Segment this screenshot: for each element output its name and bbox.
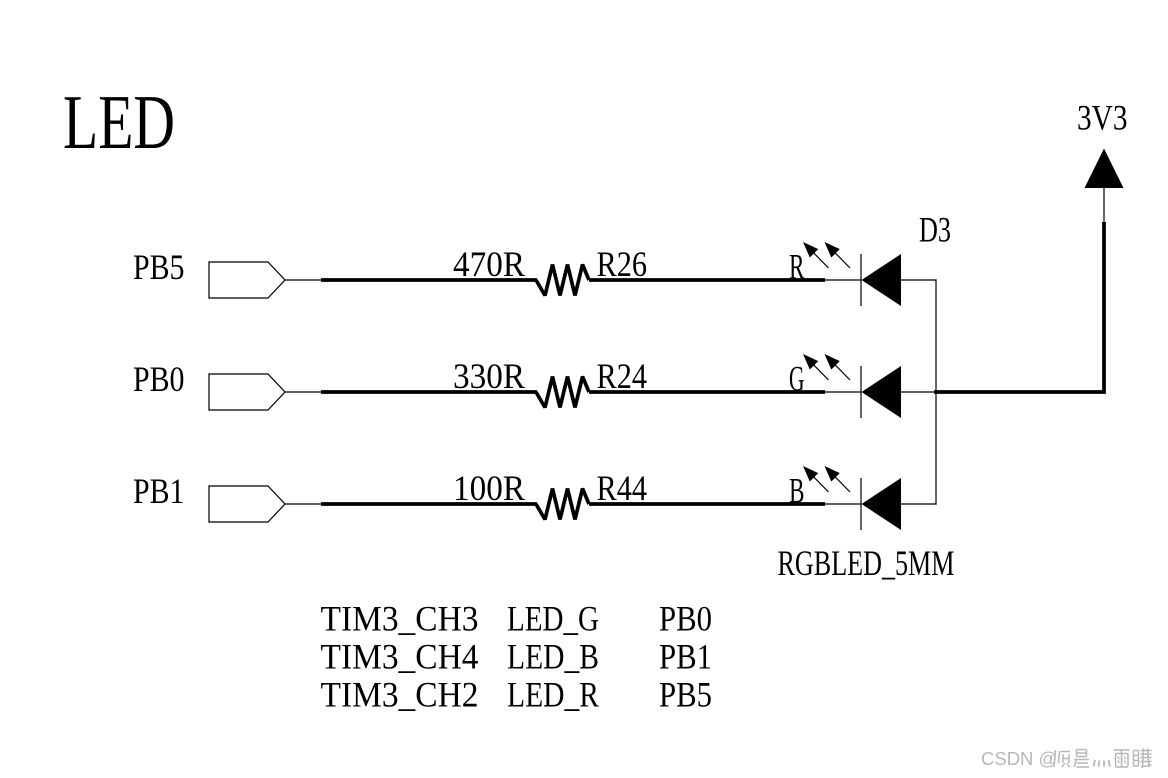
- wire PB5 to R26: [321, 278, 537, 282]
- power symbol 3V3 (arrow): [1085, 149, 1124, 189]
- svg-text:RGBLED_5MM: RGBLED_5MM: [778, 543, 955, 583]
- svg-text:D3: D3: [919, 210, 951, 250]
- resistor R24 330R: [536, 377, 589, 408]
- wire R24 to LED G: [589, 390, 825, 394]
- wire lead into LED B cathode: [825, 503, 861, 505]
- port PB5: [133, 247, 285, 298]
- wire PB1 to R44: [321, 502, 537, 506]
- svg-text:TIM3_CH4: TIM3_CH4: [321, 637, 479, 677]
- svg-text:330R: 330R: [453, 356, 525, 396]
- wire R26 to LED R: [589, 278, 825, 282]
- wire PB5 pin lead: [285, 279, 322, 281]
- net anode bus (vertical): [935, 279, 937, 504]
- wire LED G anode to bus: [901, 391, 936, 393]
- wire R44 to LED B: [589, 502, 825, 506]
- wire LED B anode to bus: [901, 503, 936, 505]
- LED D3 B element (cathode bar, triangle, emission arrows): [803, 466, 901, 530]
- table row TIM3_CH3 LED_G PB0: [321, 599, 713, 639]
- svg-text:PB1: PB1: [133, 471, 185, 511]
- svg-text:PB0: PB0: [659, 599, 712, 639]
- svg-text:R44: R44: [597, 468, 648, 508]
- wire lead into LED G cathode: [825, 391, 861, 393]
- svg-text:TIM3_CH2: TIM3_CH2: [321, 675, 479, 715]
- svg-text:PB5: PB5: [133, 247, 185, 287]
- resistor R44 100R: [536, 489, 589, 520]
- wire PB0 to R24: [321, 390, 537, 394]
- svg-text:LED: LED: [63, 79, 175, 165]
- wire LED R anode to bus: [901, 279, 936, 281]
- wire PB0 pin lead: [285, 391, 322, 393]
- svg-text:CSDN @: CSDN @: [981, 748, 1057, 769]
- svg-text:R: R: [789, 247, 805, 287]
- port PB0: [133, 359, 285, 410]
- wire lead into LED R cathode: [825, 279, 861, 281]
- svg-text:PB0: PB0: [133, 359, 185, 399]
- watermark CSDN: [981, 748, 1152, 769]
- wire 3V3 stem: [1103, 188, 1105, 224]
- svg-text:TIM3_CH3: TIM3_CH3: [321, 599, 479, 639]
- LED D3 G element (cathode bar, triangle, emission arrows): [803, 354, 901, 418]
- svg-text:470R: 470R: [453, 244, 525, 284]
- svg-text:100R: 100R: [453, 468, 525, 508]
- wire bus to 3V3 riser: [934, 222, 1104, 392]
- svg-text:B: B: [789, 471, 805, 511]
- svg-text:PB5: PB5: [659, 675, 712, 715]
- svg-text:LED_R: LED_R: [507, 675, 599, 715]
- resistor R26 470R: [536, 265, 589, 296]
- wire PB1 pin lead: [285, 503, 322, 505]
- svg-text:G: G: [789, 359, 805, 399]
- table row TIM3_CH2 LED_R PB5: [321, 675, 713, 715]
- svg-text:PB1: PB1: [659, 637, 712, 677]
- svg-text:3V3: 3V3: [1077, 98, 1128, 138]
- svg-text:LED_B: LED_B: [507, 637, 599, 677]
- svg-text:LED_G: LED_G: [507, 599, 599, 639]
- table row TIM3_CH4 LED_B PB1: [321, 637, 713, 677]
- svg-text:R24: R24: [597, 356, 648, 396]
- svg-text:R26: R26: [597, 244, 648, 284]
- LED D3 R element (cathode bar, triangle, emission arrows): [803, 242, 901, 306]
- port PB1: [133, 471, 285, 522]
